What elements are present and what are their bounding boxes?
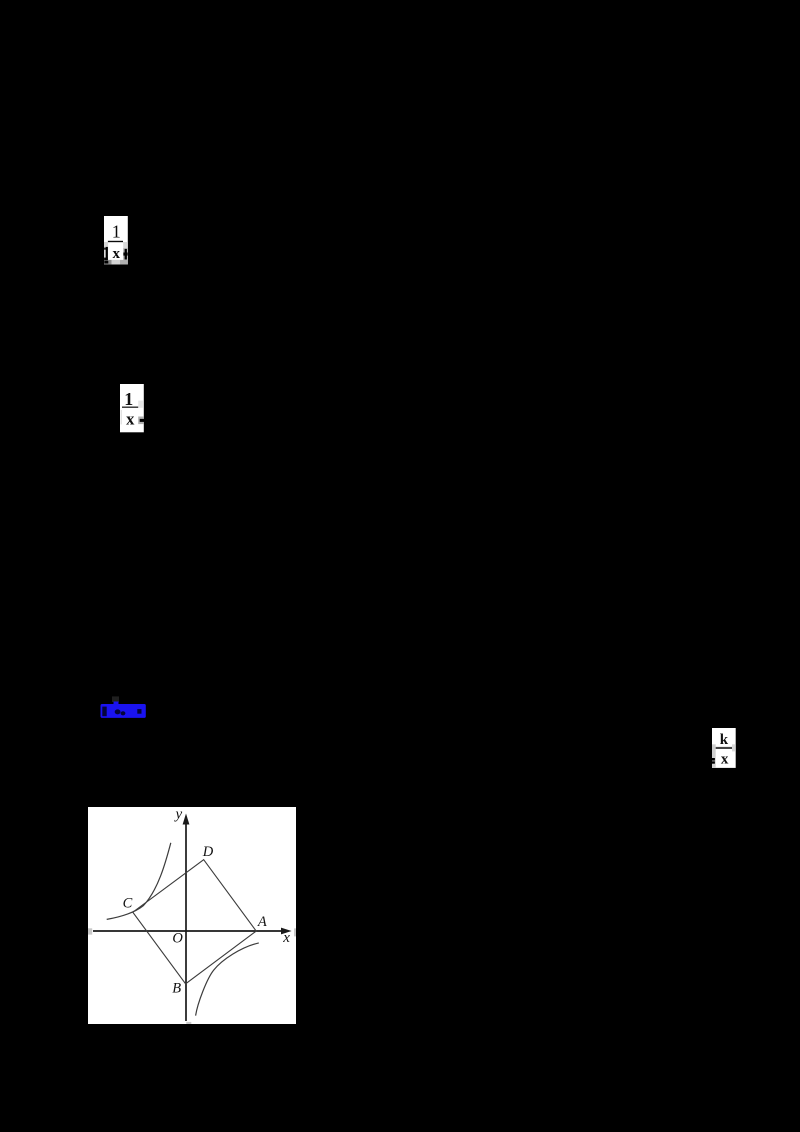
left edge black fragment (stem with serifs) bbox=[106, 247, 108, 261]
x-axis bbox=[93, 930, 284, 932]
white background bbox=[712, 728, 736, 768]
light gray patch right of numerator bbox=[138, 400, 143, 407]
blue bold words (solution heading) bbox=[99, 694, 159, 722]
svg-text:y: y bbox=[174, 807, 183, 822]
svg-text:D: D bbox=[202, 844, 214, 860]
faint dark block above diacritic bbox=[112, 696, 119, 702]
svg-text:A: A bbox=[257, 914, 267, 930]
main blue body bbox=[101, 704, 146, 718]
light gray below-bar backdrop bbox=[104, 242, 128, 260]
svg-text:1: 1 bbox=[112, 221, 121, 241]
equals fragment at left edge bbox=[712, 758, 715, 761]
diacritic riser bbox=[114, 702, 119, 706]
hyperbola branch quadrant IV bbox=[196, 943, 259, 1016]
fraction k/x (third equation box) bbox=[712, 728, 736, 768]
right margin darker gray bbox=[123, 248, 128, 260]
black notch fragment bbox=[140, 419, 145, 422]
fraction 1/x (first equation box) bbox=[104, 216, 129, 265]
fraction 1/x (second equation box) bbox=[120, 384, 145, 433]
right gray shoulder bbox=[732, 744, 736, 751]
svg-text:x: x bbox=[113, 246, 121, 262]
fraction bar bbox=[122, 406, 138, 407]
inner white cell around x bbox=[108, 242, 123, 259]
faint left strip bbox=[121, 410, 122, 424]
svg-text:1: 1 bbox=[124, 388, 133, 408]
fraction bar bbox=[108, 241, 123, 242]
bottom strip grays bbox=[104, 260, 112, 265]
white background bbox=[120, 384, 144, 432]
right edge black fragment (plus) bbox=[125, 249, 127, 260]
square ABCD bbox=[133, 860, 256, 984]
y-axis arrowhead bbox=[183, 814, 190, 825]
svg-text:B: B bbox=[172, 981, 181, 997]
svg-text:k: k bbox=[720, 732, 729, 748]
svg-text:C: C bbox=[123, 896, 133, 912]
hyperbola branch quadrant II bbox=[107, 843, 171, 920]
gray block right edge bbox=[138, 416, 143, 424]
gray handle bottom bbox=[186, 1022, 191, 1024]
svg-text:x: x bbox=[126, 409, 135, 428]
left gray column bbox=[712, 744, 716, 767]
white background bbox=[104, 216, 128, 264]
svg-text:x: x bbox=[721, 752, 729, 768]
y-axis bbox=[185, 823, 187, 1021]
dark fraction bar bbox=[716, 747, 732, 749]
svg-text:O: O bbox=[172, 930, 183, 946]
gray handle right edge bbox=[294, 928, 296, 936]
gray handle left edge bbox=[88, 928, 92, 934]
coordinate figure (square ABCD with hyperbola) bbox=[88, 807, 296, 1024]
x-axis arrowhead bbox=[281, 928, 292, 935]
dark counters bbox=[102, 707, 106, 717]
svg-text:x: x bbox=[282, 930, 290, 946]
